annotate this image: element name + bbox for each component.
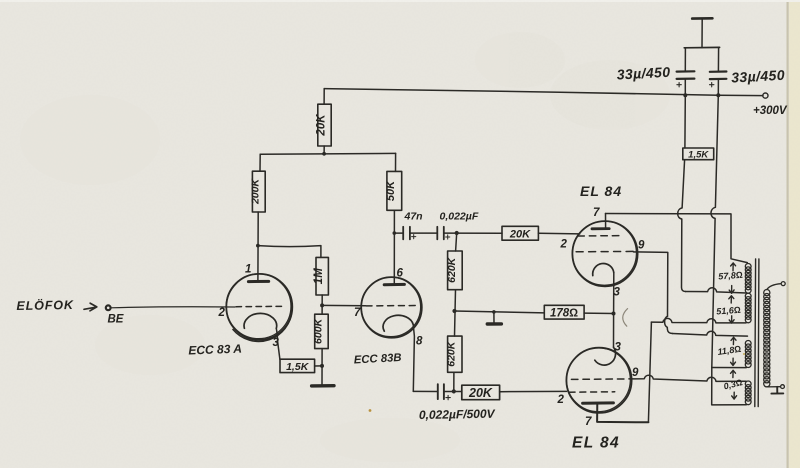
svg-text:+300V: +300V (753, 105, 788, 117)
svg-text:178Ω: 178Ω (550, 308, 578, 320)
wire (right supply line: rail down to tap3, hops at plate run) (711, 95, 718, 367)
node (47n tap on V1b plate line) (393, 231, 397, 235)
wire (rail left end drop to 20K) (323, 89, 325, 105)
resistor 1,5K (screen feed dropper, horizontal box) (683, 148, 714, 160)
wire (secondary top lead to terminal) (767, 284, 781, 290)
tube V1b ECC83B envelope (361, 277, 422, 338)
V1b plate bar (384, 283, 404, 286)
svg-text:EL 84: EL 84 (580, 183, 622, 199)
wire (50K bottom down to V1b plate) (393, 210, 395, 284)
svg-text:8: 8 (416, 336, 423, 348)
transformer OPT primary winding section 3 (745, 340, 751, 367)
label + polarity 0,022uF/500V (446, 395, 450, 399)
svg-text:7: 7 (354, 307, 361, 319)
svg-text:ECC 83 A: ECC 83 A (188, 342, 242, 358)
capacitor C2 33u/450 (right filter cap plates) (710, 70, 727, 73)
wire (branch right then down into 1M) (258, 246, 321, 258)
svg-text:3: 3 (614, 287, 621, 299)
node secondary top terminal (781, 282, 785, 286)
svg-text:620K: 620K (446, 256, 458, 283)
V1a plate bar (248, 280, 268, 283)
wire (tap3 to OPT coil) (712, 367, 747, 369)
wire (right cap bottom lead to B+ rail) (717, 79, 719, 95)
node (cathode line junction) (612, 312, 616, 316)
wire (junction down to 620K) (456, 233, 457, 251)
V2 screen grid (dashed) (576, 250, 633, 252)
wire (cap to 20K lower) (444, 391, 462, 393)
wire (V3 screen pin 9 out right to OPT G4, hops) (632, 375, 746, 381)
resistor 620K (phase splitter divider lower, vertical) (448, 336, 462, 372)
wire (V3 plate lead down and right) (597, 403, 648, 422)
arrow up (0,3 section) (731, 370, 736, 377)
resistor 200K (V1a plate load, vertical) (252, 171, 265, 212)
wire (620K bottom to output node) (453, 372, 455, 391)
resistor 20K (plate supply dropper, vertical) (318, 104, 331, 146)
wire (right cap top lead) (717, 48, 719, 72)
svg-text:51,6Ω: 51,6Ω (716, 305, 741, 317)
wire (left supply continues below 1.5K with hop over plate run) (678, 160, 686, 292)
svg-text:1,5K: 1,5K (286, 361, 310, 373)
svg-text:ECC 83B: ECC 83B (354, 352, 402, 366)
tube V3 EL84 bottom envelope (566, 348, 631, 413)
node (junction to 620K divider) (455, 231, 459, 235)
wire (V2 cathode down to V3 cathode) (613, 273, 615, 348)
svg-text:20K: 20K (468, 386, 493, 400)
label + polarity right cap (710, 83, 714, 87)
svg-text:47n: 47n (404, 211, 423, 223)
resistor 50K (V1b plate load, vertical) (387, 171, 402, 210)
wire (OPT bottom end) (712, 368, 747, 405)
tube V1a ECC83A envelope (226, 274, 292, 340)
svg-text:7: 7 (585, 416, 592, 428)
label + polarity 0,022uF (446, 235, 450, 239)
wire (V2 screen pin 9 out right and down) (633, 252, 667, 316)
V3 screen grid (dashed) (571, 378, 632, 381)
arrow up (51,6 section) (729, 296, 734, 303)
resistor 20K (lower grid feed, horizontal) (462, 385, 500, 400)
wire (left cap top lead) (684, 48, 686, 71)
arrow down (57,8 section) (729, 286, 734, 294)
node (divider midpoint) (452, 309, 456, 313)
wire (cap out to 20K grid stopper) (444, 232, 502, 234)
svg-text:7: 7 (593, 207, 600, 219)
wire (B+ rail from 20K top over to +300V terminal) (324, 89, 763, 96)
arrow up (11,8 section) (731, 337, 736, 344)
paper speck 2 (743, 353, 745, 355)
arrow down (51,6 section) (729, 316, 734, 323)
V3 cathode hook (inverted) (595, 347, 616, 365)
wire (178R to EL84 cathode line) (584, 312, 613, 314)
svg-text:EL 84: EL 84 (572, 435, 620, 452)
svg-text:2: 2 (218, 307, 226, 319)
svg-text:0,022µF: 0,022µF (440, 211, 479, 223)
paper speck (369, 409, 372, 412)
wire (cathode to lower cap) (413, 390, 438, 392)
wire (V2 plate run to OPT top) (606, 214, 748, 263)
transformer OPT primary winding section 2 (745, 293, 751, 323)
wire (47n to 0,022uF) (410, 232, 437, 234)
pencil stray arc mark (623, 309, 628, 327)
wire (row2: V3 plate to OPT tap2, hops) (651, 318, 746, 322)
transformer secondary winding (764, 290, 770, 387)
wire (row1: screen feed to OPT tap1, hop) (686, 288, 747, 293)
V1a grid (dashed) (236, 305, 284, 307)
V1a cathode hook (244, 313, 277, 328)
node (ground stub tap) (492, 310, 496, 314)
wire (V2 plate lead up) (605, 214, 607, 228)
wire (row3: screens line to OPT G3 top, hop) (673, 331, 748, 336)
wire (link bar joining both filter cap tops) (684, 46, 719, 48)
tube V2 EL84 top envelope (572, 221, 637, 286)
wire (midpoint over to 178R) (455, 311, 545, 313)
svg-text:ELÖFOK: ELÖFOK (16, 297, 74, 313)
svg-text:20K: 20K (509, 228, 531, 240)
node (lower coupling junction) (452, 389, 456, 393)
wire (secondary bottom lead) (767, 386, 780, 388)
wire (left drop to 200K) (259, 154, 261, 171)
wire (V1a cathode down to 1.5K) (276, 328, 280, 359)
capacitor 0,022uF/500V (plates) (438, 384, 444, 399)
arrow down (0,3 section) (732, 392, 737, 399)
svg-text:600K: 600K (312, 317, 324, 344)
svg-text:6: 6 (397, 268, 404, 280)
wire (200K bottom down to V1a plate) (257, 212, 259, 281)
resistor 620K (phase splitter divider upper, vertical) (448, 251, 463, 290)
resistor 1M (coupling divider, vertical) (316, 257, 328, 295)
svg-text:33µ/450: 33µ/450 (616, 64, 670, 83)
wire (V3 plate riser up to row2) (648, 322, 651, 422)
svg-text:33µ/450: 33µ/450 (731, 67, 785, 86)
node secondary bottom terminal (781, 385, 785, 389)
svg-text:2: 2 (560, 239, 568, 251)
V2 control grid (dashed) (578, 235, 623, 237)
node (1.5K right end joins 600K leg) (320, 364, 324, 368)
V1b cathode hook (383, 315, 413, 331)
wire (20K to EL84 bottom grid pin 2) (500, 390, 567, 392)
capacitor 0,022uF (coupling, plates) (437, 227, 444, 240)
svg-text:200K: 200K (250, 178, 262, 206)
wire (stem from top bar down to cap link bar) (701, 19, 703, 48)
transformer OPT primary winding section 1 (745, 263, 751, 293)
capacitor 47n (coupling, plates) (403, 227, 410, 240)
V2 cathode hook (593, 263, 614, 275)
wire (between 620K resistors) (455, 290, 456, 336)
wire (screen line hop over row2 then elbow into row3) (665, 316, 673, 333)
svg-text:9: 9 (638, 240, 645, 252)
node (rail x left cap line) (683, 93, 687, 97)
V3 control grid (dashed) (569, 391, 615, 393)
transformer OPT primary winding section 4 (745, 381, 751, 405)
label + polarity 47n (412, 235, 416, 239)
wire (horizontal bus to 200K and 50K) (260, 152, 395, 155)
wire (ground stub) (493, 312, 495, 324)
V1b grid (dashed) (366, 305, 418, 307)
svg-text:2: 2 (557, 394, 565, 406)
svg-text:3: 3 (273, 337, 280, 349)
node BE input terminal (106, 305, 111, 310)
wire (left supply line: rail down to 1.5K, hop at plate run, to row1) (684, 95, 686, 148)
node +300V output terminal (763, 93, 768, 98)
resistor 600K (grid leak, vertical) (315, 314, 329, 348)
ground (bar under 600K) (312, 384, 334, 388)
wire (20K bottom to junction) (323, 146, 325, 154)
svg-text:50K: 50K (385, 180, 397, 201)
svg-text:1M: 1M (313, 268, 325, 284)
svg-text:1,5K: 1,5K (688, 149, 709, 160)
svg-text:9: 9 (632, 367, 639, 379)
svg-text:1: 1 (245, 264, 251, 276)
arrow down (11,8 section) (731, 358, 736, 365)
capacitor C1 33u/450 (left filter cap plates) (677, 70, 695, 72)
wire (600K bottom to ground) (321, 349, 323, 386)
wire (plate line to 47n cap) (394, 232, 403, 234)
wire (1M bottom to 600K top) (321, 295, 323, 314)
node junction below 20K (322, 152, 326, 156)
wire (20K to EL84 top grid pin 2) (538, 232, 579, 235)
arrow up (57,8 section) (731, 263, 736, 271)
V3 plate bar (583, 401, 614, 404)
wire (input to V1a grid) (111, 307, 235, 308)
wire (V1b cathode down) (413, 325, 414, 392)
svg-text:BE: BE (108, 314, 124, 326)
node (1M/600K junction, grid of V1b) (320, 303, 324, 307)
svg-text:0,022µF/500V: 0,022µF/500V (419, 407, 496, 422)
input arrow (84, 303, 97, 311)
ground (bar mid schematic) (487, 322, 501, 326)
V2 plate bar (592, 227, 609, 230)
node (plate / 1M branch) (256, 244, 260, 248)
node (rail x right cap line) (716, 93, 720, 97)
transformer core lines (755, 259, 759, 407)
resistor 1,5K (V1a cathode, horizontal) (280, 359, 315, 372)
svg-text:620K: 620K (446, 340, 458, 367)
svg-text:57,8Ω: 57,8Ω (718, 270, 743, 282)
ground terminal top (chassis bar above filter caps) (692, 17, 712, 20)
resistor 178R (cathode feedback, horizontal) (544, 305, 584, 319)
svg-text:20K: 20K (316, 114, 328, 137)
wire (1.5K right to 600K ground leg) (315, 365, 322, 367)
wire (junction to V1b grid) (322, 304, 365, 306)
resistor 20K (upper grid feed, horizontal) (502, 226, 538, 240)
label + polarity left cap (677, 83, 681, 87)
svg-text:3: 3 (615, 342, 622, 354)
wire (left cap bottom lead to B+ rail) (684, 79, 686, 95)
ground (secondary, small) (771, 387, 783, 394)
wire (right drop to 50K) (395, 153, 397, 171)
